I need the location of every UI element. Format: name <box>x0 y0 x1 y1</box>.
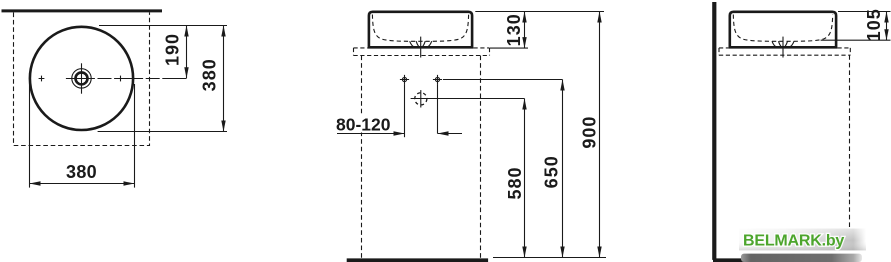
extension line basin top right <box>838 11 891 13</box>
basin inner bowl (dashed) <box>372 15 468 42</box>
drain funnel side <box>772 41 794 47</box>
extension line slab top right <box>490 47 528 49</box>
leader from right connection <box>437 84 439 133</box>
drain funnel front <box>410 41 432 47</box>
cabinet back edge (dashed) <box>849 55 851 228</box>
drain outlet (dashed circle target) <box>415 90 427 107</box>
tap mark right (+) <box>120 76 122 82</box>
water connection right (target) <box>433 75 442 84</box>
svg-text:580: 580 <box>505 166 525 199</box>
extension line circle bottom <box>98 131 227 133</box>
extension line drain to 580 <box>411 98 525 100</box>
svg-text:650: 650 <box>541 155 561 188</box>
dimension 80-120 arrows <box>337 133 405 135</box>
svg-text:900: 900 <box>580 116 600 149</box>
svg-text:190: 190 <box>163 33 183 66</box>
dimension 190 line <box>186 26 188 79</box>
extension line top <box>99 25 227 27</box>
floor (thick line) <box>347 258 488 262</box>
dimension 650 line <box>562 80 564 258</box>
cabinet right edge (dashed) <box>480 56 482 259</box>
dimension 380 horizontal line <box>30 183 135 185</box>
basin side outline <box>730 12 836 48</box>
water connection left (target) <box>400 75 409 84</box>
dimension text 80-120 backing <box>334 115 393 133</box>
extension line floor <box>493 257 606 259</box>
wall (thick vertical) <box>712 2 716 260</box>
extension line circle right <box>134 84 136 188</box>
tap mark left (+) <box>39 76 45 82</box>
svg-text:380: 380 <box>66 162 97 182</box>
countertop slab front (dashed) <box>354 48 490 56</box>
dimension 380 vertical line <box>223 26 225 132</box>
dimension 105 line <box>886 12 888 41</box>
drain vertical centerline <box>81 63 83 93</box>
wall (thick line, plan) <box>2 9 163 12</box>
svg-text:80-120: 80-120 <box>336 114 391 134</box>
svg-text:105: 105 <box>864 8 884 41</box>
dimension 130 line <box>524 12 526 49</box>
countertop outline (dashed, plan) <box>14 13 150 146</box>
drain centerline front <box>420 37 422 58</box>
cabinet left edge (dashed) <box>361 56 363 259</box>
floor (thick line) <box>713 258 770 262</box>
extension line basin top <box>475 11 604 13</box>
extension line connections to 650 <box>443 79 563 81</box>
basin front outline <box>369 12 472 48</box>
basin rim circle <box>30 27 133 130</box>
watermark band <box>739 229 866 251</box>
extension line 105 bottom <box>821 39 891 41</box>
svg-text:130: 130 <box>504 13 524 46</box>
svg-text:BELMARK.by: BELMARK.by <box>743 232 844 249</box>
horizontal centerline to dimension <box>66 78 187 80</box>
svg-text:380: 380 <box>200 58 220 91</box>
leader from left connection <box>404 84 406 137</box>
drain centerline side <box>782 37 784 58</box>
basin inner bowl side (dashed) <box>733 15 832 42</box>
drain inner ring <box>76 72 88 84</box>
extension line circle left <box>29 84 31 188</box>
watermark floor shadow <box>741 254 862 262</box>
countertop slab side (dashed) <box>719 48 850 55</box>
dimension 580 line <box>524 99 526 258</box>
drain outer circle <box>72 69 91 88</box>
dimension 900 line <box>599 12 601 258</box>
